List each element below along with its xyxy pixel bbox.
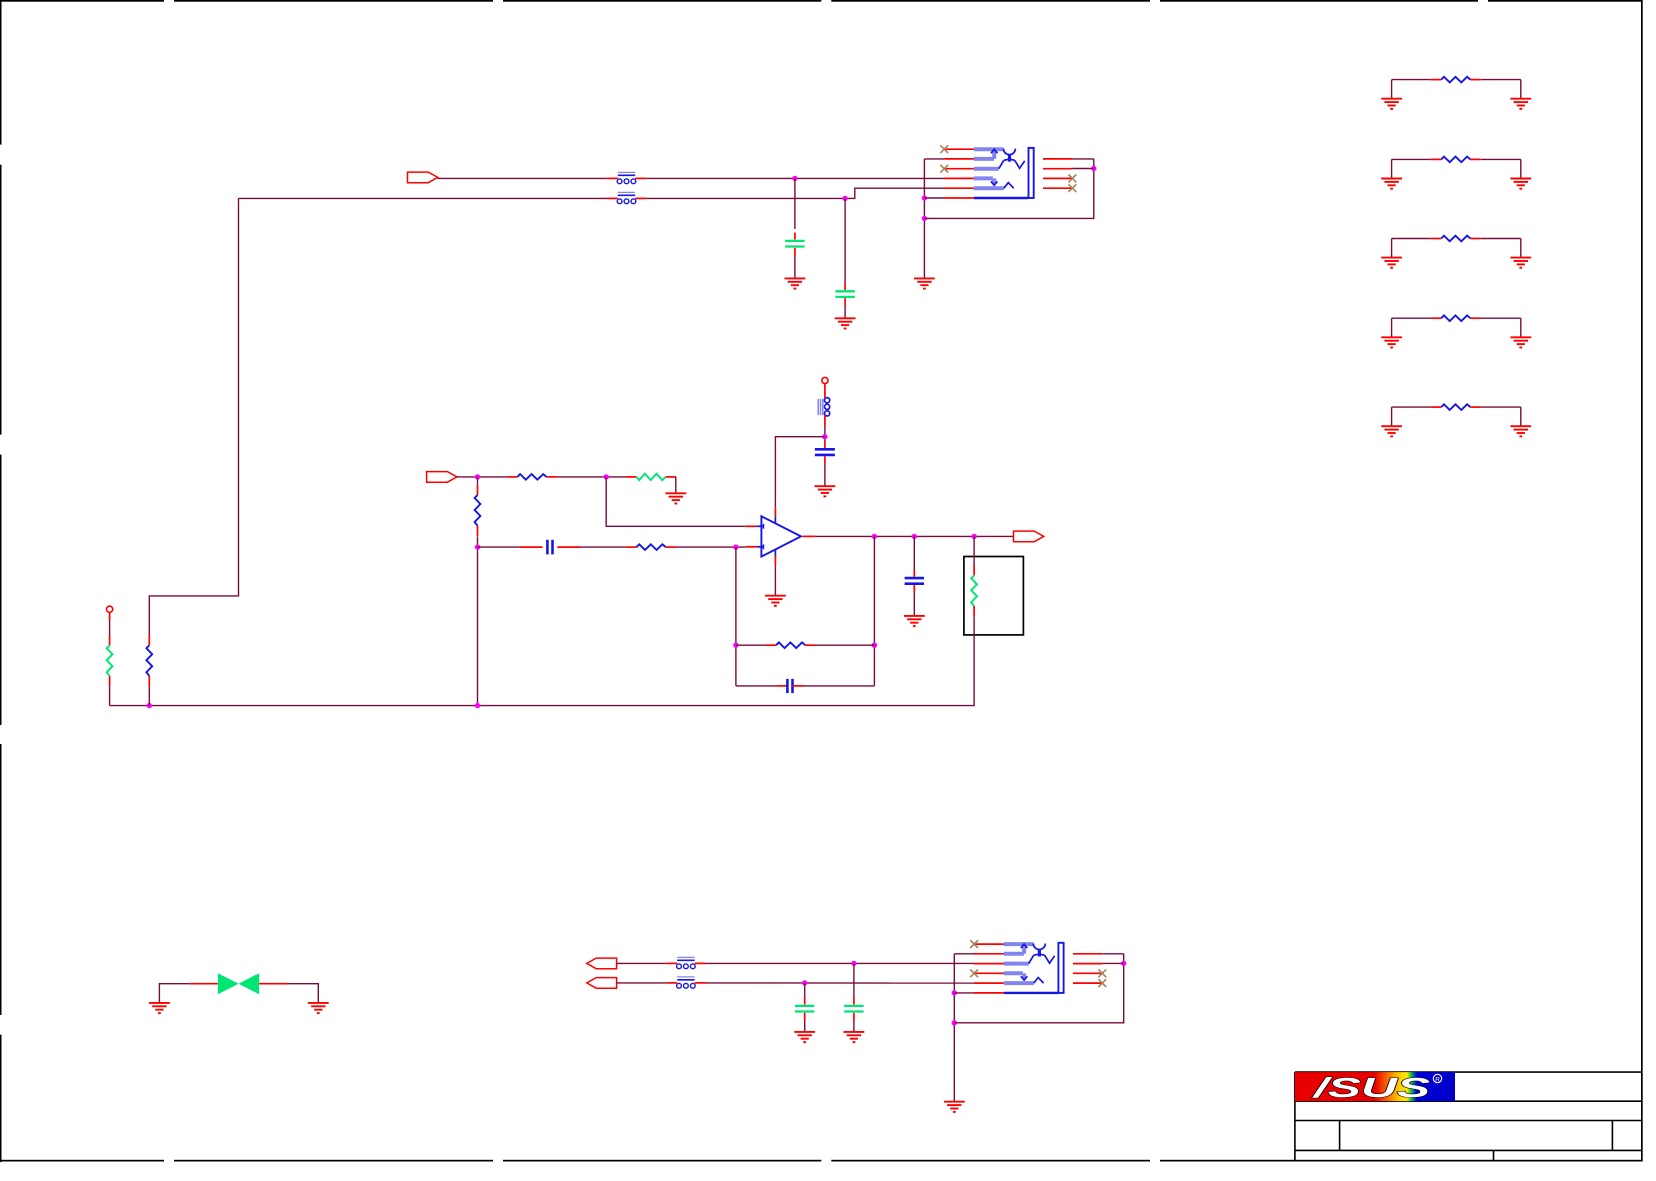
ground bbox=[1510, 179, 1531, 189]
ground bbox=[914, 278, 935, 288]
wire R3 to bottom bbox=[477, 536, 479, 705]
junction node bbox=[922, 216, 927, 221]
ferrite bead FB3 bbox=[818, 398, 830, 427]
wire R11 right bbox=[1481, 158, 1521, 160]
ground bbox=[308, 1003, 329, 1013]
wire to R3 bbox=[477, 477, 479, 485]
resistor R8 bbox=[146, 635, 152, 686]
junction node bbox=[1121, 961, 1126, 966]
wire R12 right bbox=[1481, 238, 1521, 240]
no-connect X bbox=[1069, 175, 1077, 183]
wire net LIN2 bbox=[646, 177, 944, 179]
wire C9 gnd bbox=[853, 1021, 855, 1032]
capacitor C6 bbox=[776, 679, 803, 693]
wire J2 return bbox=[954, 954, 1123, 1023]
ground bbox=[904, 616, 925, 626]
junction node bbox=[475, 474, 480, 479]
wire bias a bbox=[109, 620, 111, 635]
wire net LIN1 bbox=[438, 177, 607, 179]
wire tvs right bbox=[288, 984, 318, 1003]
ground bbox=[815, 486, 836, 496]
wire fb row a bbox=[478, 546, 521, 548]
wire J1 rpin1 bbox=[1072, 158, 1093, 160]
resistor R3 bbox=[475, 485, 481, 536]
resistor R6 bbox=[766, 642, 816, 648]
wire R13 lgnd bbox=[1391, 318, 1393, 337]
wire R10 left bbox=[1392, 79, 1431, 81]
wire R13 right bbox=[1481, 317, 1521, 319]
junction node bbox=[792, 176, 797, 181]
ground bbox=[765, 596, 786, 606]
wire R14 rgnd bbox=[1520, 407, 1522, 426]
TVS diode D1 bbox=[190, 973, 289, 994]
resistor R11 bbox=[1431, 157, 1481, 163]
audio jack J1 bbox=[944, 148, 1072, 198]
wire fb r b bbox=[816, 644, 875, 646]
ground bbox=[1381, 337, 1402, 347]
wire bottom bus bbox=[110, 616, 975, 705]
port LINE_OUT_L bbox=[587, 958, 617, 969]
wire R12 left bbox=[1392, 238, 1431, 240]
capacitor C1 bbox=[785, 233, 804, 256]
wire jack J1 pin2 bbox=[924, 158, 944, 160]
wire J1 return bbox=[924, 159, 1093, 219]
wire J1 rpin2 bbox=[1072, 168, 1093, 170]
wire br b bbox=[706, 982, 975, 984]
capacitor C4 bbox=[520, 540, 580, 555]
wire out bbox=[815, 535, 1013, 537]
junction node bbox=[922, 195, 927, 200]
wire vcc bbox=[824, 427, 826, 442]
wire J1 pin6 bbox=[924, 197, 944, 199]
port LINE_IN_L bbox=[408, 172, 438, 183]
no-connect X bbox=[970, 969, 978, 977]
junction node bbox=[1091, 166, 1096, 171]
wire C2 to ground bbox=[844, 306, 846, 318]
wire fb row b bbox=[580, 546, 626, 548]
wire to C9 bbox=[853, 963, 855, 997]
wire R10 lgnd bbox=[1391, 80, 1393, 99]
ground bbox=[1381, 179, 1402, 189]
ground bbox=[1510, 337, 1531, 347]
capacitor C5 bbox=[905, 570, 924, 593]
junction node bbox=[802, 980, 807, 985]
ferrite bead FB4 bbox=[666, 957, 705, 968]
resistor R14 bbox=[1431, 404, 1481, 410]
wire J1 sleeve to ground bbox=[923, 159, 925, 279]
wire tvs left bbox=[159, 984, 189, 1003]
capacitor C8 bbox=[795, 998, 814, 1021]
wire J2 rpin2 bbox=[1102, 962, 1123, 964]
resistor R7 bbox=[107, 635, 113, 686]
no-connect X bbox=[1098, 979, 1106, 987]
wire in1 bbox=[456, 476, 507, 478]
ground bbox=[1381, 426, 1402, 436]
component box bbox=[964, 557, 1024, 635]
wire J2 sleeve to gnd bbox=[953, 954, 955, 1102]
wire R13 left bbox=[1392, 317, 1431, 319]
port MIC_OUT bbox=[1014, 531, 1044, 542]
wire C8 gnd bbox=[804, 1021, 806, 1032]
bias terminal bbox=[107, 606, 113, 612]
power terminal bbox=[822, 377, 828, 383]
no-connect X bbox=[1069, 184, 1077, 192]
capacitor C9 bbox=[844, 998, 863, 1021]
wire fb c b bbox=[804, 685, 875, 687]
junction node bbox=[952, 1020, 957, 1025]
wire net LIN4 bbox=[646, 188, 944, 198]
wire C1 to ground bbox=[794, 256, 796, 279]
wire long vertical bbox=[149, 198, 238, 635]
resistor R5 bbox=[971, 565, 977, 616]
capacitor C3 bbox=[815, 441, 835, 464]
resistor R2 bbox=[626, 474, 676, 480]
port MIC_IN bbox=[427, 472, 457, 483]
ground bbox=[149, 1003, 170, 1013]
wire to C1 bbox=[794, 178, 796, 229]
wire J2 rpin1 bbox=[1102, 953, 1123, 955]
ferrite bead FB2 bbox=[607, 192, 646, 203]
junction node bbox=[952, 990, 957, 995]
wire R14 lgnd bbox=[1391, 407, 1393, 426]
svg-text:R: R bbox=[1435, 1076, 1440, 1083]
wire R13 rgnd bbox=[1520, 318, 1522, 337]
resistor R13 bbox=[1431, 315, 1481, 321]
wire fb r a bbox=[736, 644, 766, 646]
title block bbox=[1295, 1072, 1642, 1161]
wire R11 rgnd bbox=[1520, 159, 1522, 178]
ground bbox=[665, 493, 686, 503]
wire vcc to opamp bbox=[775, 437, 825, 508]
ground bbox=[1510, 258, 1531, 268]
wire C3 to gnd bbox=[824, 464, 826, 486]
junction node bbox=[475, 703, 480, 708]
port LINE_OUT_R bbox=[587, 978, 617, 989]
no-connect X bbox=[940, 165, 948, 173]
wire fb right bbox=[873, 536, 875, 686]
wire to R5 bbox=[973, 536, 975, 566]
wire to C5 bbox=[913, 536, 915, 570]
wire R2 gnd bbox=[675, 477, 677, 493]
wire R8 b bbox=[148, 686, 150, 706]
wire in2 bbox=[557, 476, 626, 478]
wire to -in bbox=[676, 546, 746, 548]
ferrite bead FB1 bbox=[607, 172, 646, 183]
ground bbox=[1510, 99, 1531, 109]
junction node bbox=[733, 544, 738, 549]
junction node bbox=[872, 643, 877, 648]
wire C5 gnd bbox=[913, 593, 915, 616]
junction node bbox=[475, 544, 480, 549]
wire J2 pin2 bbox=[954, 953, 974, 955]
wire R12 lgnd bbox=[1391, 239, 1393, 258]
ground bbox=[1381, 99, 1402, 109]
junction node bbox=[842, 196, 847, 201]
wire R14 right bbox=[1481, 406, 1521, 408]
wire bl b bbox=[706, 962, 975, 964]
junction node bbox=[912, 534, 917, 539]
wire bl a bbox=[617, 962, 667, 964]
wire J2 pin6 bbox=[954, 992, 974, 994]
no-connect X bbox=[940, 145, 948, 153]
wire to C8 bbox=[804, 983, 806, 998]
ground bbox=[1510, 426, 1531, 436]
junction node bbox=[147, 703, 152, 708]
wire br a bbox=[617, 982, 667, 984]
wire fb left bbox=[735, 547, 737, 686]
resistor R12 bbox=[1431, 236, 1481, 242]
op-amp U1 bbox=[746, 507, 816, 566]
ground bbox=[835, 318, 856, 328]
resistor R10 bbox=[1431, 77, 1481, 83]
junction node bbox=[971, 534, 976, 539]
wire bias b bbox=[109, 686, 111, 706]
junction node bbox=[872, 534, 877, 539]
resistor R1 bbox=[507, 474, 557, 480]
wire R10 right bbox=[1481, 79, 1521, 81]
wire R10 rgnd bbox=[1520, 80, 1522, 99]
capacitor C2 bbox=[835, 283, 854, 306]
ground bbox=[944, 1102, 965, 1112]
junction node bbox=[733, 643, 738, 648]
wire R14 left bbox=[1392, 406, 1431, 408]
junction node bbox=[822, 434, 827, 439]
no-connect X bbox=[1098, 969, 1106, 977]
resistor R4 bbox=[626, 544, 676, 550]
svg-text:/SUS: /SUS bbox=[1310, 1072, 1430, 1103]
wire R11 lgnd bbox=[1391, 159, 1393, 178]
audio jack J2 bbox=[974, 943, 1102, 993]
wire R11 left bbox=[1392, 158, 1431, 160]
ground bbox=[1381, 258, 1402, 268]
junction node bbox=[851, 961, 856, 966]
ground bbox=[794, 1032, 815, 1042]
wire to C2 bbox=[844, 198, 846, 283]
ferrite bead FB5 bbox=[666, 977, 705, 988]
wire R12 rgnd bbox=[1520, 239, 1522, 258]
no-connect X bbox=[970, 940, 978, 948]
ground bbox=[785, 278, 806, 288]
wire opamp gnd bbox=[774, 566, 776, 596]
ground bbox=[844, 1032, 865, 1042]
wire net LIN3 bbox=[239, 197, 607, 199]
junction node bbox=[604, 474, 609, 479]
wire to +in bbox=[606, 477, 746, 526]
wire fb c a bbox=[736, 685, 777, 687]
